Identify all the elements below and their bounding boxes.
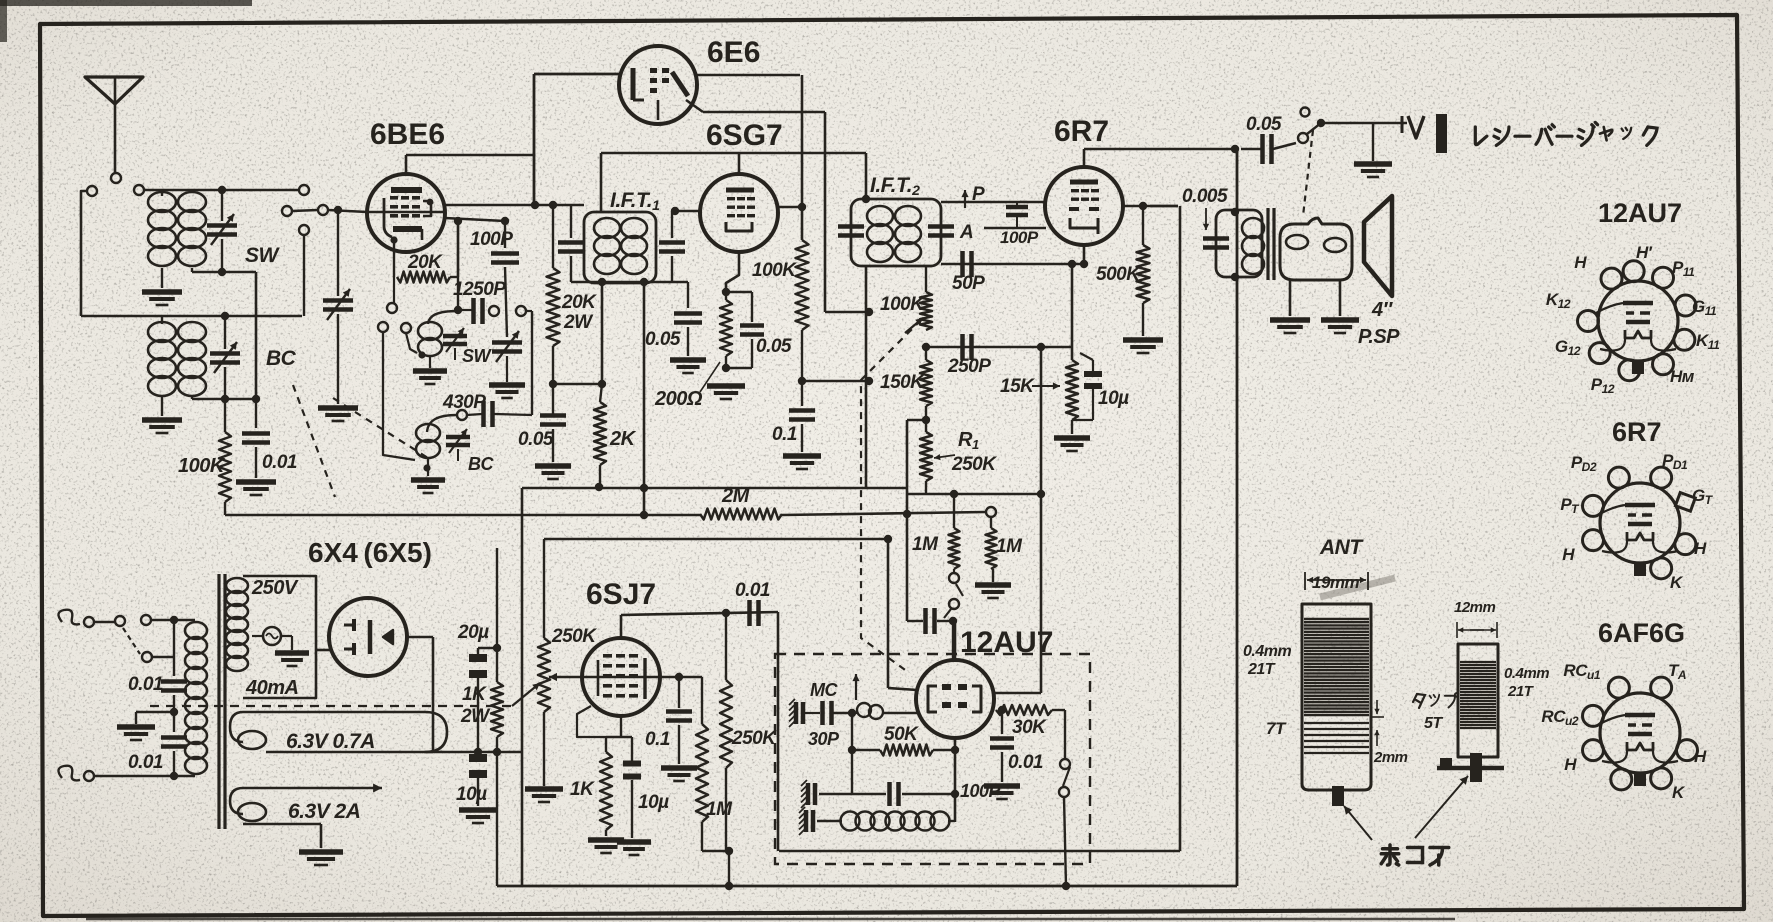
wire diode	[984, 227, 1046, 230]
wire	[255, 272, 258, 399]
label OSC 12mm	[1454, 599, 1497, 638]
wire 15K line	[1071, 264, 1074, 360]
wire grid2 top	[954, 621, 957, 660]
resistor 20K 2W screen	[547, 201, 560, 384]
switch dashed	[1303, 130, 1313, 216]
svg-text:H: H	[1694, 539, 1707, 558]
transformer primary	[185, 622, 207, 639]
wire af inner rail	[702, 847, 733, 890]
wire	[601, 282, 604, 384]
svg-text:0.1: 0.1	[772, 424, 797, 445]
resistor 200 ohm cathode	[720, 292, 732, 372]
svg-text:15K: 15K	[1000, 376, 1035, 397]
wire detector top	[941, 201, 1046, 204]
wire	[907, 420, 926, 494]
ground	[299, 849, 343, 855]
svg-text:Hм: Hм	[1670, 367, 1695, 386]
switch pivot	[1317, 119, 1325, 127]
speaker field frame	[1280, 218, 1352, 280]
wire det bottom rail	[907, 493, 1041, 496]
resistor 100K avc	[880, 266, 932, 330]
svg-text:1M: 1M	[996, 536, 1023, 557]
svg-text:H′: H′	[1636, 243, 1653, 262]
antenna terminal	[111, 173, 121, 183]
capacitor IFT2 secondary	[928, 224, 954, 229]
band switch contact a	[87, 186, 97, 196]
resistor 250K af plate	[720, 613, 777, 851]
node	[221, 395, 229, 403]
switch osc	[944, 569, 963, 618]
svg-text:6AF6G: 6AF6G	[1598, 618, 1685, 648]
wire grid 6BE6 b	[328, 210, 367, 212]
capacitor 100P osc	[819, 781, 1002, 806]
svg-text:250K: 250K	[551, 626, 597, 647]
svg-text:20K: 20K	[407, 252, 443, 273]
wire osc grid	[457, 221, 459, 311]
capacitor IFT1 primary	[558, 205, 584, 282]
svg-text:500K: 500K	[1096, 264, 1141, 285]
capacitor 0.01 line a	[128, 620, 187, 732]
svg-text:BC: BC	[266, 347, 297, 370]
wire 6R7 right	[1122, 205, 1178, 208]
wire IFT1 sec bottom down	[643, 282, 646, 515]
capacitor 0.01 osc	[990, 706, 1043, 782]
wire IFT2 bottom left	[865, 266, 868, 488]
resistor 1K cathode	[570, 737, 612, 836]
wire 1250P to 430P	[531, 311, 533, 415]
node	[848, 709, 856, 717]
node	[640, 278, 648, 286]
svg-text:4″: 4″	[1371, 299, 1394, 321]
node SW top	[218, 186, 226, 194]
wire 6E6 plate	[697, 74, 800, 77]
wire B+ vertical right	[1236, 149, 1239, 886]
resistor 100K screen	[752, 240, 809, 381]
switch contact	[387, 277, 397, 313]
wire IFT1 bottom	[571, 281, 688, 284]
wire	[81, 191, 87, 316]
variable trimmer SW osc	[443, 328, 467, 360]
node	[1080, 260, 1088, 268]
svg-text:1M: 1M	[912, 534, 939, 555]
svg-text:0.05: 0.05	[1246, 114, 1282, 135]
switch contact	[378, 322, 415, 460]
switch contact	[1301, 108, 1310, 117]
node	[1231, 145, 1239, 153]
node	[501, 217, 509, 225]
BC antenna coil primary	[148, 316, 176, 416]
OSC coil base	[1437, 753, 1504, 782]
resistor 150K	[880, 347, 932, 420]
tube 12AU7 pinout	[1546, 243, 1720, 396]
resistor 30K osc plate	[993, 693, 1065, 738]
tube 6SJ7	[582, 615, 660, 716]
resistor 20K osc grid	[390, 217, 462, 283]
ground	[411, 477, 445, 483]
wire 6BE6 plate top	[406, 155, 534, 174]
svg-text:BC: BC	[468, 454, 494, 474]
ground	[588, 837, 624, 843]
svg-text:5T: 5T	[1424, 715, 1443, 732]
svg-text:100P: 100P	[470, 229, 513, 250]
transformer HT secondary	[226, 578, 248, 593]
IFT1 secondary coil	[621, 218, 647, 238]
wire main bottom rail	[497, 885, 1237, 888]
ground	[142, 289, 182, 295]
variable capacitor SW tuning	[207, 190, 237, 272]
label red core katakana	[1381, 845, 1449, 865]
svg-text:100P: 100P	[1000, 228, 1039, 247]
svg-text:100K: 100K	[752, 260, 797, 281]
ground	[670, 357, 706, 363]
ground	[661, 765, 697, 771]
capacitor 30P osc	[805, 701, 852, 725]
svg-text:19mm: 19mm	[1312, 573, 1360, 592]
AC plug top	[58, 610, 94, 627]
svg-text:10µ: 10µ	[1098, 388, 1129, 409]
capacitor IFT2 primary	[838, 224, 864, 229]
node	[1068, 260, 1076, 268]
capacitor IFT1 secondary	[659, 211, 685, 282]
svg-text:MC: MC	[810, 680, 838, 700]
speaker cone	[1364, 196, 1392, 296]
svg-text:6.3V 0.7A: 6.3V 0.7A	[286, 730, 375, 753]
tube 6R7 pinout	[1560, 451, 1707, 592]
dimension 2mm	[1371, 700, 1408, 766]
node	[454, 306, 462, 314]
svg-text:0.05: 0.05	[756, 336, 792, 357]
pilot lamp	[252, 627, 292, 650]
wire af feed rail	[544, 535, 917, 690]
svg-text:6SJ7: 6SJ7	[586, 578, 656, 611]
svg-text:10µ: 10µ	[638, 792, 669, 813]
wire rect out	[433, 751, 522, 754]
resistor R1 250K	[920, 420, 932, 494]
trimmer padder b	[806, 783, 811, 805]
svg-text:0.01: 0.01	[262, 452, 297, 473]
node	[1139, 202, 1147, 210]
ground	[413, 368, 447, 374]
svg-text:0.01: 0.01	[735, 580, 770, 601]
wire 6E6 target diagonal	[686, 100, 825, 312]
IFT1 primary coil	[594, 218, 620, 238]
label R1 250K	[934, 429, 997, 475]
svg-text:0.05: 0.05	[518, 429, 554, 450]
wire	[992, 569, 994, 582]
AC plug bottom	[58, 766, 94, 781]
wire	[94, 775, 195, 778]
capacitor 0.05 cathode	[726, 292, 792, 368]
variable trimmer BC osc	[446, 429, 470, 461]
label 20K 2W	[561, 292, 597, 333]
node	[595, 483, 603, 491]
resistor 1M osc b	[986, 518, 1024, 569]
wire HT to 6X4	[316, 649, 330, 652]
capacitor 50P	[952, 251, 985, 294]
ground	[459, 807, 497, 813]
wire	[1040, 494, 1043, 693]
capacitor 0.1 screen bypass	[772, 381, 815, 452]
red core arrow left	[1344, 806, 1372, 840]
node	[640, 484, 648, 492]
switch contact 2	[318, 205, 328, 215]
svg-text:2K: 2K	[609, 428, 637, 450]
ground	[275, 650, 309, 656]
osc coil BC	[416, 415, 457, 476]
svg-text:P: P	[972, 184, 985, 205]
ANT coil winding dense	[1304, 619, 1369, 715]
wire BC bottom	[192, 398, 256, 401]
node	[675, 673, 683, 681]
svg-text:6SG7: 6SG7	[706, 119, 783, 152]
wire b-plus bus left	[521, 488, 524, 886]
svg-text:10µ: 10µ	[456, 784, 487, 805]
wire jack ground	[1372, 123, 1374, 161]
wire 50P rail	[941, 263, 1084, 266]
svg-text:7T: 7T	[1266, 719, 1287, 738]
node	[865, 308, 873, 316]
svg-text:H: H	[1574, 253, 1587, 272]
resistor 2K	[594, 384, 637, 487]
label 0.4mm 21T osc	[1504, 665, 1549, 700]
HT loop box	[243, 576, 316, 698]
ground	[1321, 317, 1359, 323]
label 1K 2W	[460, 684, 491, 727]
ground	[707, 383, 745, 389]
oscillator dashed box	[775, 654, 1090, 864]
capacitor 10u cathode	[1072, 353, 1129, 420]
node	[798, 203, 806, 211]
svg-text:100K: 100K	[880, 294, 925, 315]
svg-text:6.3V 2A: 6.3V 2A	[288, 800, 360, 823]
svg-text:21T: 21T	[1507, 683, 1535, 700]
wire	[825, 311, 869, 314]
ground	[142, 417, 182, 423]
trimmer MC	[789, 680, 840, 749]
wire BC top rail	[81, 315, 302, 318]
switch contact	[299, 225, 309, 316]
heater winding 6.3V 2A	[230, 784, 382, 849]
switch lever	[1307, 123, 1321, 134]
ground	[1270, 317, 1310, 323]
gang dashed line	[333, 398, 428, 458]
ground	[783, 453, 821, 459]
wire	[802, 380, 869, 383]
ground	[1054, 435, 1090, 441]
capacitor 0.05 IFT1	[645, 282, 702, 356]
test point P arrow	[961, 184, 985, 208]
svg-text:12AU7: 12AU7	[1598, 198, 1682, 228]
wire grid arrow	[549, 673, 702, 681]
svg-text:30K: 30K	[1012, 717, 1047, 738]
resistor 50K osc grid	[880, 724, 933, 756]
wire SW bottom	[192, 271, 256, 274]
wire	[852, 749, 880, 751]
wire to 6E6	[534, 74, 619, 205]
SW antenna coil secondary	[178, 192, 206, 272]
ground	[525, 786, 563, 792]
wire grid 6BE6	[292, 210, 318, 211]
variable capacitor BC tuning	[210, 316, 240, 399]
resistor 15K cathode	[1066, 360, 1078, 434]
gang dashed to avc	[861, 320, 921, 672]
svg-text:H: H	[1562, 545, 1575, 564]
svg-text:2mm: 2mm	[1373, 749, 1408, 766]
wire 250P rail	[926, 346, 1072, 349]
wire SW top rail	[144, 189, 299, 192]
svg-text:H: H	[1564, 755, 1577, 774]
capacitor 10u cathode 6SJ7	[623, 737, 669, 838]
ANT coil winding sparse	[1304, 723, 1369, 753]
capacitor 0.05 screen	[518, 380, 602, 462]
wire 12AU7 cathode	[954, 738, 957, 822]
switch contact	[299, 185, 309, 195]
variable capacitor padder	[492, 331, 522, 382]
ground	[236, 479, 276, 485]
svg-text:250P: 250P	[947, 356, 991, 377]
svg-text:0.05: 0.05	[645, 329, 681, 350]
capacitor 1250P	[453, 279, 532, 324]
svg-text:12mm: 12mm	[1454, 599, 1496, 616]
terminal	[986, 507, 996, 517]
tube 12AU7	[916, 660, 994, 738]
node	[1037, 490, 1045, 498]
resistor 1M osc a	[912, 490, 960, 569]
wire coupling down	[777, 612, 780, 851]
gang arrowhead	[905, 318, 923, 333]
gang arrow A	[855, 674, 857, 700]
output transformer box	[1216, 210, 1262, 277]
ground	[318, 405, 358, 411]
switch contact	[282, 206, 292, 216]
capacitor padder osc	[907, 608, 957, 660]
label tap 5T	[1413, 693, 1458, 732]
node	[951, 746, 959, 754]
capacitor 0.01 line b	[161, 738, 187, 781]
BC antenna coil secondary	[178, 322, 206, 399]
tube 6X4	[329, 598, 407, 676]
svg-text:100K: 100K	[178, 455, 226, 477]
wire	[903, 494, 911, 621]
node	[334, 206, 342, 214]
IFT2 box	[851, 199, 941, 266]
IFT2 secondary coil	[895, 206, 921, 226]
capacitor 100P	[470, 221, 519, 337]
capacitor 100P det	[1006, 202, 1028, 228]
label receiver jack katakana	[1475, 122, 1657, 145]
transformer core	[219, 574, 225, 829]
wire grid stub	[672, 210, 700, 213]
wire to jack	[1321, 122, 1407, 125]
dimension 19mm	[1305, 572, 1368, 592]
label 15K	[1000, 376, 1060, 397]
power switch	[94, 615, 174, 662]
label 0.005	[1182, 186, 1228, 230]
svg-text:ANT: ANT	[1319, 536, 1364, 559]
label 200 ohm	[654, 362, 720, 410]
tube 6SG7	[700, 153, 778, 252]
svg-text:2W: 2W	[563, 312, 594, 333]
wire avc rail	[225, 502, 985, 515]
switch contact	[401, 323, 417, 353]
wire 6R7 plate	[1084, 149, 1235, 167]
heater winding 6.3V 0.7A	[230, 712, 447, 753]
resistor 1K 2W filter	[491, 548, 503, 886]
node	[798, 377, 806, 385]
svg-text:30P: 30P	[808, 729, 840, 749]
node	[848, 746, 856, 754]
wire 6SG7 plate	[778, 206, 802, 209]
node	[865, 377, 873, 385]
resistor 1M grid	[696, 677, 733, 851]
trimmer padder c	[804, 810, 809, 832]
wire screen rail horiz	[522, 487, 907, 490]
svg-text:1M: 1M	[706, 799, 733, 820]
svg-text:0.01: 0.01	[128, 674, 163, 695]
svg-text:21T: 21T	[1247, 661, 1276, 678]
svg-text:6E6: 6E6	[707, 36, 760, 69]
ground	[1354, 161, 1392, 167]
output transformer primary	[1242, 218, 1264, 238]
svg-text:50P: 50P	[952, 273, 985, 294]
svg-text:250V: 250V	[251, 577, 299, 599]
svg-text:0.01: 0.01	[128, 752, 163, 773]
ground line filter	[136, 708, 178, 724]
ground	[975, 582, 1011, 588]
switch contact	[1298, 133, 1308, 143]
node	[1037, 343, 1045, 351]
svg-text:H: H	[1694, 747, 1707, 766]
svg-text:1250P: 1250P	[453, 279, 506, 300]
tube 6R7	[1045, 167, 1123, 245]
SW antenna coil primary	[148, 190, 176, 288]
svg-text:0.1: 0.1	[645, 729, 670, 750]
antenna	[85, 77, 143, 173]
IFT2 primary coil	[867, 206, 893, 226]
ground	[1123, 337, 1163, 343]
coupling loop gimmick	[852, 703, 917, 719]
svg-text:6BE6: 6BE6	[370, 118, 445, 151]
node	[640, 511, 648, 519]
capacitor 0.01 coupling	[735, 580, 770, 626]
node	[598, 380, 606, 388]
ANT coil lug	[1332, 786, 1344, 806]
wire plate top	[621, 612, 778, 615]
node	[598, 278, 606, 286]
svg-text:0.4mm: 0.4mm	[1243, 643, 1291, 660]
capacitor 0.05 coupling	[1241, 114, 1296, 164]
node	[722, 288, 730, 296]
band switch contact b	[134, 185, 144, 195]
node BC top	[221, 312, 229, 320]
transformer core	[1268, 208, 1274, 280]
svg-text:2W: 2W	[460, 706, 491, 727]
wire plate rail	[445, 204, 584, 207]
capacitor 10u filter	[456, 748, 501, 806]
switch osc output	[1059, 710, 1070, 886]
ground	[617, 839, 651, 845]
svg-text:A: A	[959, 222, 973, 243]
speaker voice coil leads	[1290, 280, 1340, 316]
ground	[984, 783, 1020, 789]
ground	[535, 463, 571, 469]
wire 6BE6 grid chord	[367, 212, 505, 221]
node	[1062, 882, 1070, 890]
svg-text:40mA: 40mA	[245, 677, 298, 699]
ground	[489, 382, 525, 388]
svg-text:1K: 1K	[570, 779, 595, 800]
tube 6AF6G pinout	[1541, 661, 1707, 802]
